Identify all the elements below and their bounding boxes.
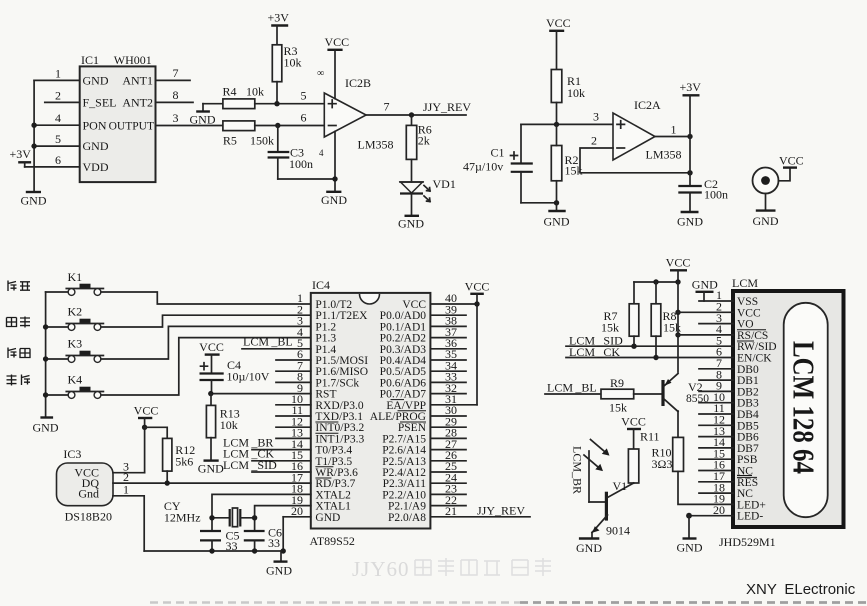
resistor R12 5k6	[145, 427, 196, 483]
wire MCU pin13 stub	[276, 437, 311, 439]
svg-text:GND: GND	[544, 215, 570, 229]
wire LCM pin15 stub	[699, 458, 733, 460]
svg-text:GND: GND	[33, 421, 59, 435]
wire LCM pin16 stub	[699, 470, 733, 472]
capacitor C4 10u/10V	[200, 358, 270, 394]
svg-text:10k: 10k	[246, 85, 264, 99]
wire IC1 pin7 ANT1 stub	[156, 79, 191, 81]
junction dot	[31, 123, 36, 128]
label 退出	[8, 281, 30, 292]
ground GND (rail)	[266, 551, 292, 578]
wire MCU pin11 stub	[276, 415, 311, 417]
wire MCU pin23 stub	[430, 493, 466, 495]
svg-text:+3V: +3V	[268, 11, 290, 25]
wire MCU pin22 stub	[430, 505, 466, 507]
ground GND (LED-)	[677, 516, 703, 555]
svg-text:DB7: DB7	[737, 443, 759, 455]
wire MCU pin18 XTAL2 branch	[212, 494, 311, 531]
svg-text:LCM 128 64: LCM 128 64	[787, 341, 822, 474]
ground GND (R2/C1)	[544, 200, 570, 228]
svg-text:VCC: VCC	[666, 256, 691, 270]
svg-text:ANT1: ANT1	[122, 74, 153, 88]
svg-text:PON: PON	[83, 118, 107, 132]
svg-text:3: 3	[173, 111, 179, 125]
ground GND (buttons)	[33, 418, 59, 435]
wire K4 to MCU pin4	[46, 338, 311, 395]
pushbutton K2 (set)	[66, 305, 103, 331]
pushbutton K3 (increase)	[66, 337, 103, 363]
capacitor C2 100n	[678, 137, 728, 202]
svg-text:+3V: +3V	[680, 80, 702, 94]
wire -input feedback (pin 2)	[580, 134, 693, 176]
svg-text:DB4: DB4	[737, 409, 759, 421]
ground GND (V1 emitter)	[576, 533, 602, 556]
svg-text:10k: 10k	[284, 56, 302, 70]
svg-text:P0.6/AD6: P0.6/AD6	[380, 377, 427, 389]
svg-text:RW/SID: RW/SID	[737, 341, 777, 353]
svg-text:IC2A: IC2A	[634, 98, 661, 112]
capacitor C5 33	[200, 529, 240, 554]
svg-text:JJY60: JJY60	[352, 557, 410, 581]
resistor R3 10k	[272, 44, 301, 104]
resistor R2 15k	[551, 124, 582, 202]
svg-text:XTAL1: XTAL1	[315, 501, 351, 513]
wire IC3 pin1 Gnd to rail	[113, 496, 144, 551]
svg-text:5k6: 5k6	[175, 455, 193, 469]
wire IC1 pin4	[34, 124, 80, 126]
svg-text:GND: GND	[321, 193, 347, 207]
op-amp IC2B LM358	[317, 68, 394, 158]
watermark JJY60	[352, 557, 410, 581]
svg-text:NC: NC	[737, 488, 753, 500]
pushbutton K4 (decrease)	[66, 373, 103, 399]
svg-text:GND: GND	[692, 278, 718, 292]
svg-text:P2.5/A13: P2.5/A13	[382, 456, 426, 468]
svg-text:P2.6/A14: P2.6/A14	[382, 445, 426, 457]
svg-text:GND: GND	[677, 541, 703, 555]
wire R10 to LCM pin19 LED+	[678, 471, 733, 504]
power VCC (R7/R8/LCM)	[666, 256, 691, 283]
svg-text:LCM _BL: LCM _BL	[547, 381, 597, 395]
wire RST node to MCU pin9	[208, 391, 311, 396]
wire C3 bottom to op-amp pin4	[278, 178, 335, 180]
LED VD1	[400, 159, 456, 201]
svg-text:P2.2/A10: P2.2/A10	[382, 489, 426, 501]
ground GND (C2)	[677, 193, 703, 229]
svg-text:P0.2/AD2: P0.2/AD2	[380, 333, 427, 345]
op-amp IC2A LM358	[613, 98, 682, 162]
svg-text:ANT2: ANT2	[122, 96, 153, 110]
svg-text:P0.7/AD7: P0.7/AD7	[380, 389, 427, 401]
svg-text:R5: R5	[223, 134, 237, 148]
wire IC1 pin8 ANT2 stub	[156, 101, 194, 103]
wire MCU pin28 stub	[430, 437, 466, 439]
svg-text:R11: R11	[640, 430, 660, 444]
wire R5 to op-amp -input (pin 6)	[255, 125, 324, 127]
svg-text:EA/VPP: EA/VPP	[386, 400, 426, 412]
wire IC1 pin1	[34, 79, 80, 81]
wire LCM pin17 stub	[699, 481, 733, 483]
svg-text:∞: ∞	[317, 68, 324, 79]
svg-text:6: 6	[55, 153, 61, 167]
svg-text:INT0/P3.2: INT0/P3.2	[315, 422, 364, 434]
svg-text:DB0: DB0	[737, 364, 759, 376]
wire MCU pin37 stub	[430, 337, 466, 339]
svg-text:VD1: VD1	[433, 177, 456, 191]
svg-text:2: 2	[55, 89, 61, 103]
svg-text:LCM _BL: LCM _BL	[243, 335, 293, 349]
node LCM_BR wire (vertical)	[571, 446, 606, 502]
wire node LCM_CK to LCM pin6	[566, 345, 733, 360]
wire output (pin 1)	[655, 123, 693, 140]
wire LCM pin14 stub	[699, 447, 733, 449]
wire MCU pin6 stub	[276, 359, 311, 361]
svg-text:F_SEL: F_SEL	[83, 96, 117, 110]
svg-text:GND: GND	[83, 139, 109, 153]
svg-text:LM358: LM358	[358, 138, 394, 152]
svg-text:JJY_REV: JJY_REV	[423, 100, 471, 114]
svg-text:IC3: IC3	[63, 447, 81, 461]
wire MCU pin27 stub	[430, 449, 466, 451]
capacitor C1 47u/10v	[463, 124, 533, 202]
resistor R5 150k	[223, 121, 274, 148]
crystal CY 12MHz	[164, 499, 257, 527]
svg-text:VCC: VCC	[325, 35, 350, 49]
svg-text:AT89S52: AT89S52	[310, 534, 355, 548]
junction dot	[43, 324, 48, 329]
wire LCM pin12 stub	[699, 424, 733, 426]
wire C1 bottom to GND node	[521, 202, 557, 204]
junction dot	[31, 143, 36, 148]
svg-text:7: 7	[384, 100, 390, 114]
svg-text:DB5: DB5	[737, 420, 759, 432]
svg-text:JHD529M1: JHD529M1	[719, 535, 776, 549]
svg-text:WR/P3.6: WR/P3.6	[315, 467, 358, 479]
svg-text:LED+: LED+	[737, 499, 766, 511]
svg-text:47µ/10v: 47µ/10v	[463, 160, 503, 174]
wire VCC branch to R7/R8	[634, 279, 681, 284]
ground GND (op-amp pin 4)	[321, 132, 347, 208]
wire IC3 pin3 VCC	[113, 472, 145, 474]
svg-text:EN/CK: EN/CK	[737, 353, 772, 365]
wire LCM pin8 stub	[699, 379, 733, 381]
svg-text:10µ/10V: 10µ/10V	[227, 370, 270, 384]
svg-text:9014: 9014	[606, 524, 630, 538]
svg-text:XNY ELectronic: XNY ELectronic	[746, 581, 856, 598]
wire LCM pin2 VCC	[678, 311, 733, 313]
connector XS1 VCC test point	[753, 154, 804, 194]
wire LCM pin7 stub	[699, 368, 733, 370]
wire MCU pin21 node JJY_REV	[430, 516, 530, 518]
svg-text:K4: K4	[68, 373, 83, 387]
svg-text:GND: GND	[83, 74, 109, 88]
svg-text:P2.1/A9: P2.1/A9	[388, 501, 426, 513]
svg-text:VCC: VCC	[779, 154, 804, 168]
ground GND (IC1 bus)	[21, 192, 47, 208]
svg-text:15k: 15k	[609, 401, 627, 415]
power VCC (R1 top)	[546, 16, 571, 70]
capacitor C3 100n	[268, 126, 313, 180]
wire IC1 pin3 OUTPUT to R5	[156, 125, 223, 127]
wire LCM pin9 stub	[699, 390, 733, 392]
svg-text:GND: GND	[576, 541, 602, 555]
resistor R7 15k	[601, 282, 639, 346]
svg-text:LED-: LED-	[737, 511, 763, 523]
svg-text:VCC: VCC	[402, 299, 426, 311]
wire LCM pin11 stub	[699, 413, 733, 415]
wire R4 to op-amp +input (pin 5)	[255, 103, 324, 105]
capacitor C6 33	[244, 526, 282, 554]
wire IC1 ground bus	[33, 80, 35, 191]
svg-text:C1: C1	[491, 146, 505, 160]
svg-text:IC4: IC4	[312, 278, 330, 292]
wire IC1 pin5	[34, 145, 80, 147]
svg-text:P1.1/T2EX: P1.1/T2EX	[315, 310, 368, 322]
wire LCM pin3 stub	[699, 323, 733, 325]
svg-text:4: 4	[55, 111, 61, 125]
svg-text:XTAL2: XTAL2	[315, 489, 351, 501]
wire LCM pin10 stub	[699, 402, 733, 404]
power +3V (R3 top)	[268, 11, 290, 45]
svg-text:5: 5	[301, 89, 307, 103]
svg-text:TXD/P3.1: TXD/P3.1	[315, 411, 363, 423]
svg-text:LM358: LM358	[646, 148, 682, 162]
svg-text:R4: R4	[223, 85, 237, 99]
power VCC (C4)	[199, 340, 224, 373]
LCM module JHD529M1 (LCM 128 64)	[719, 276, 844, 549]
svg-text:P1.5/MOSI: P1.5/MOSI	[315, 355, 368, 367]
svg-text:GND: GND	[677, 215, 703, 229]
svg-text:GND: GND	[190, 113, 216, 127]
svg-text:Gnd: Gnd	[78, 487, 99, 501]
wire MCU pin31 EA to VCC	[430, 404, 477, 406]
wire MCU pin26 stub	[430, 460, 466, 462]
svg-text:K3: K3	[68, 337, 83, 351]
svg-text:8550: 8550	[686, 393, 709, 405]
svg-text:VO: VO	[737, 319, 754, 331]
svg-text:VCC: VCC	[134, 404, 159, 418]
junction dot	[43, 392, 48, 397]
svg-text:LCM: LCM	[732, 276, 758, 290]
svg-text:10k: 10k	[567, 86, 585, 100]
wire ground rail	[144, 550, 283, 552]
svg-text:VCC: VCC	[621, 415, 646, 429]
svg-text:ALE/PROG: ALE/PROG	[370, 411, 426, 423]
svg-text:T1/P3.5: T1/P3.5	[315, 456, 352, 468]
wire MCU pin36 stub	[430, 348, 466, 350]
label 增加	[8, 348, 30, 359]
wire K2 to MCU pin2	[46, 315, 311, 327]
svg-text:P0.0/AD0: P0.0/AD0	[380, 310, 427, 322]
svg-text:VCC: VCC	[737, 307, 761, 319]
wire MCU pin33 stub	[430, 381, 466, 383]
power VCC (op-amp pin 8)	[325, 35, 350, 99]
wire MCU pin32 stub	[430, 393, 466, 395]
label 减少	[7, 375, 31, 386]
wire MCU pin20 GND leg	[281, 517, 311, 554]
svg-text:2: 2	[591, 134, 597, 148]
svg-text:1: 1	[55, 67, 61, 81]
label 设置	[7, 317, 31, 328]
svg-text:P1.7/SCk: P1.7/SCk	[315, 377, 359, 389]
resistor R9 15k	[601, 376, 662, 415]
wire IC3 pin2 DQ to MCU pin17	[113, 480, 311, 485]
wire MCU pin19 XTAL1 branch	[255, 506, 311, 531]
svg-text:P1.0/T2: P1.0/T2	[315, 299, 352, 311]
svg-text:GND: GND	[753, 214, 779, 228]
svg-text:OUTPUT: OUTPUT	[109, 120, 154, 132]
resistor R6 2k	[406, 115, 432, 159]
svg-text:DB3: DB3	[737, 398, 759, 410]
wire MCU pin5 stub	[242, 348, 311, 350]
bottom dashed strip	[150, 601, 520, 604]
wire LCM pin20 LED- to ground	[686, 513, 733, 519]
wire MCU pin38 stub	[430, 325, 466, 327]
svg-text:K1: K1	[68, 270, 83, 284]
resistor R8 15k	[651, 282, 681, 358]
svg-text:2k: 2k	[418, 134, 430, 148]
svg-text:P0.3/AD3: P0.3/AD3	[380, 344, 427, 356]
svg-text:PSB: PSB	[737, 454, 758, 466]
svg-text:33: 33	[268, 536, 280, 550]
ground GND (R4 left)	[190, 104, 216, 127]
svg-text:DB6: DB6	[737, 432, 759, 444]
IR arrows into V1	[584, 440, 610, 472]
wire LCM pin13 stub	[699, 436, 733, 438]
power VCC (MCU pin40/31)	[465, 280, 490, 405]
svg-text:V1: V1	[613, 479, 628, 493]
junction node R3/R4	[274, 101, 279, 106]
power +3V (IC2A output)	[680, 80, 702, 137]
wire MCU pin14 stub	[252, 449, 311, 451]
watermark hanzi blocks	[415, 558, 551, 576]
wire K3 to MCU pin3	[46, 326, 311, 359]
IC1 WH001 receiver module	[55, 53, 179, 182]
svg-text:10k: 10k	[220, 418, 238, 432]
svg-text:VDD: VDD	[83, 160, 109, 174]
svg-text:IC2B: IC2B	[345, 76, 371, 90]
wire +input node (pin 3)	[521, 110, 613, 128]
ground GND (LCM VSS)	[692, 278, 718, 302]
wire op-amp output pin 7 / node JJY_REV	[366, 100, 471, 118]
svg-text:VCC: VCC	[465, 280, 490, 294]
svg-text:P0.4/AD4: P0.4/AD4	[380, 355, 427, 367]
wire MCU pin35 stub	[430, 359, 466, 361]
wire MCU pin39 stub	[430, 314, 466, 316]
wire LCM pin18 stub	[699, 492, 733, 494]
resistor R10 3R3	[652, 411, 684, 471]
wire MCU pin24 stub	[430, 482, 466, 484]
resistor R13 10k	[206, 394, 239, 438]
svg-text:4: 4	[319, 148, 324, 158]
wire node LCM_SID to LCM pin5	[566, 334, 733, 349]
svg-text:VSS: VSS	[737, 296, 758, 308]
wire R11 to V1 collector	[633, 482, 635, 484]
wire MCU pin16 stub	[252, 471, 311, 473]
wire MCU pin15 stub	[252, 460, 311, 462]
svg-text:P2.0/A8: P2.0/A8	[388, 512, 426, 524]
svg-text:3: 3	[593, 110, 599, 124]
svg-text:P0.5/AD5: P0.5/AD5	[380, 366, 427, 378]
wire MCU pin25 stub	[430, 471, 466, 473]
wire MCU pin10 stub	[276, 404, 311, 406]
svg-text:1: 1	[671, 123, 677, 137]
svg-text:100n: 100n	[289, 157, 313, 171]
wire K1 to MCU pin1	[46, 292, 311, 304]
svg-text:RXD/P3.0: RXD/P3.0	[315, 400, 363, 412]
wire LCM pin4 RS tie	[678, 334, 733, 336]
svg-text:K2: K2	[68, 305, 83, 319]
wire MCU pin12 stub	[276, 426, 311, 428]
svg-text:GND: GND	[21, 194, 47, 208]
ground GND (R13)	[198, 438, 224, 476]
svg-text:7: 7	[173, 66, 179, 80]
resistor R4 10k	[203, 85, 264, 109]
svg-text:WH001: WH001	[114, 53, 152, 67]
svg-text:GND: GND	[315, 512, 340, 524]
svg-text:P2.4/A12: P2.4/A12	[382, 467, 426, 479]
resistor R1 10k	[551, 70, 585, 125]
wire MCU pin8 stub	[276, 381, 311, 383]
wire IC1 pin2 stub	[45, 101, 80, 103]
wire MCU pin34 stub	[430, 370, 466, 372]
svg-text:P0.1/AD1: P0.1/AD1	[380, 321, 427, 333]
svg-text:DB2: DB2	[737, 386, 759, 398]
svg-text:P2.3/A11: P2.3/A11	[383, 478, 427, 490]
svg-text:VCC: VCC	[546, 16, 571, 30]
svg-text:P2.7/A15: P2.7/A15	[382, 433, 426, 445]
svg-text:P1.6/MISO: P1.6/MISO	[315, 366, 368, 378]
svg-text:1: 1	[123, 483, 129, 497]
svg-text:RD/P3.7: RD/P3.7	[315, 478, 355, 490]
svg-text:+3V: +3V	[10, 147, 32, 161]
MCU IC4 AT89S52	[310, 278, 431, 548]
svg-text:JJY_REV: JJY_REV	[477, 503, 525, 517]
junction dot	[43, 356, 48, 361]
wire MCU pin7 stub	[276, 370, 311, 372]
svg-text:LCM_BR: LCM_BR	[571, 446, 585, 494]
svg-text:GND: GND	[266, 564, 292, 578]
svg-text:PSEN: PSEN	[398, 422, 427, 434]
svg-text:100n: 100n	[704, 188, 728, 202]
svg-text:3Ω3: 3Ω3	[652, 457, 673, 471]
wire IC1 pin6 VDD from +3V	[25, 166, 80, 168]
svg-text:INT1/P3.3: INT1/P3.3	[315, 433, 364, 445]
transistor V1 9014 (NPN phototransistor)	[592, 479, 634, 538]
svg-text:T0/P3.4: T0/P3.4	[315, 445, 352, 457]
svg-text:15k: 15k	[601, 321, 619, 335]
svg-text:6: 6	[301, 111, 307, 125]
resistor R11	[628, 430, 659, 484]
junction node C3 top	[275, 123, 280, 128]
wire MCU pin40 VCC	[430, 303, 477, 305]
svg-text:VCC: VCC	[199, 340, 224, 354]
pushbutton K1 (exit)	[66, 270, 103, 295]
svg-text:P1.4: P1.4	[315, 344, 336, 356]
svg-text:GND: GND	[398, 217, 424, 231]
svg-text:LCM _CK: LCM _CK	[569, 345, 620, 359]
svg-text:150k: 150k	[250, 134, 274, 148]
svg-text:P1.3: P1.3	[315, 333, 336, 345]
svg-text:IC1: IC1	[81, 53, 99, 67]
svg-text:RES: RES	[737, 477, 758, 489]
transistor V2 8550 (PNP)	[663, 374, 709, 412]
svg-text:8: 8	[173, 88, 179, 102]
svg-text:R9: R9	[610, 376, 624, 390]
power VCC (R11)	[621, 415, 646, 450]
power VCC (IC3/R12)	[134, 404, 159, 473]
wire LCM pin1 stub	[699, 300, 733, 302]
